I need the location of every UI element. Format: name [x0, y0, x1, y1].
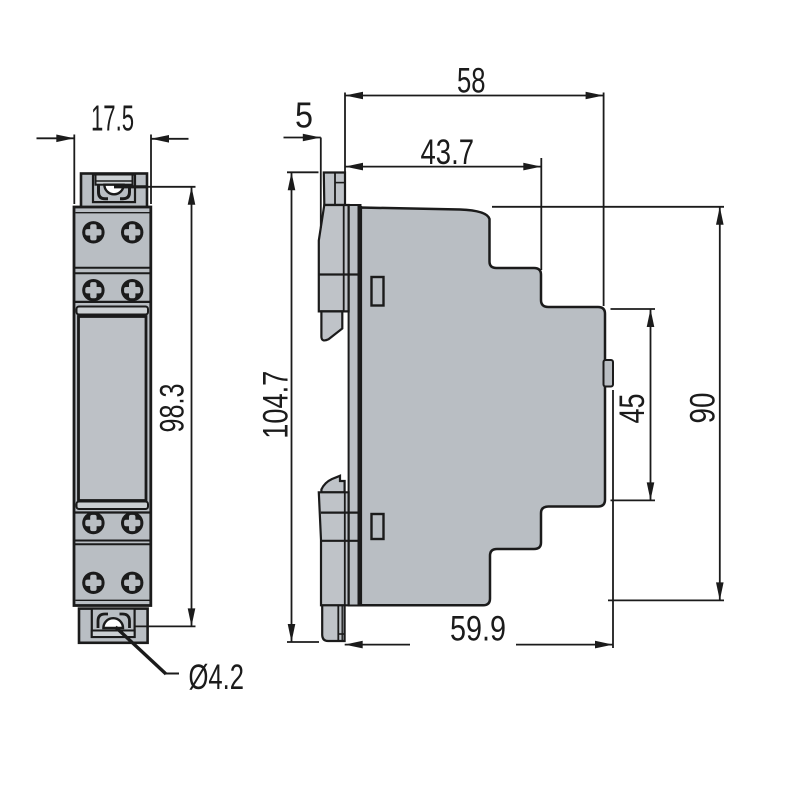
front view: terminal screw row1 left [82, 221, 104, 243]
front view: inner bottom line [76, 599, 150, 601]
svg-text:104.7: 104.7 [257, 371, 296, 439]
front view: top cable clamp block [93, 175, 135, 203]
front view: top lip strip [77, 307, 149, 315]
side view: back mounting plate [349, 205, 361, 606]
dimension 98.3: reference stubs [114, 185, 146, 188]
dimension 17.5: dim line right with arrow [151, 138, 189, 140]
front view: terminal screw row3 right [121, 512, 143, 534]
side view: top clip block [319, 205, 349, 311]
front view: top clamp left hook [99, 185, 109, 199]
front view: terminal screw row2 left [82, 279, 104, 301]
front view: top DIN tab [81, 174, 147, 208]
front view: line above top lip [74, 301, 151, 303]
dimension 58: extension lines [344, 93, 346, 205]
dimension 59.9: extension line right [612, 390, 614, 648]
side view: bottom release tab [322, 605, 344, 641]
side view: top clip tab inner line [334, 173, 336, 204]
svg-text:45: 45 [613, 394, 652, 424]
front view: top clamp right hook [120, 185, 130, 199]
front view: bottom clamp band [92, 631, 135, 638]
dimension 104.7: reference stubs [287, 171, 319, 173]
dimension dia 4.2: leader line [116, 627, 167, 674]
side view: top claw [321, 311, 342, 340]
side view: top clip block divider [319, 273, 359, 275]
side view: thick left edge of body [357, 206, 362, 606]
side view: right terminal bump [604, 360, 614, 387]
front view: terminal screw row3 left [82, 512, 104, 534]
front view: terminal screw row1 right [121, 221, 143, 243]
svg-text:59.9: 59.9 [450, 610, 506, 649]
side view: main body stepped profile [360, 208, 605, 606]
front view: terminal screw row4 left [82, 572, 104, 594]
dimension 90: vertical line with arrows [719, 207, 721, 601]
svg-text:90: 90 [684, 393, 723, 424]
dimension 98.3: vertical line with arrows [191, 187, 193, 627]
side view: top clip tab [324, 173, 345, 206]
front view: terminal screw row2 right [121, 279, 143, 301]
side view: top slot [372, 277, 384, 306]
svg-text:43.7: 43.7 [421, 133, 475, 172]
dimension 58: dim line with arrows [345, 95, 604, 97]
dimension 17.5: extension lines [73, 135, 75, 205]
front view: section divider lines upper [74, 267, 151, 269]
front view: inner top line [76, 212, 150, 214]
dimension 17.5: dim line left with arrow [37, 137, 75, 139]
svg-text:58: 58 [457, 62, 486, 101]
dimension 43.7: dim line with arrows [345, 166, 541, 168]
side view: bottom slot [372, 514, 384, 539]
front view: terminal screw row4 right [121, 572, 143, 594]
dimension 45: reference stubs [611, 308, 656, 310]
dimension 59.9: dim line with arrows [345, 644, 410, 646]
front view: top clamp band [96, 175, 133, 185]
side view: bottom clip dividers [321, 511, 359, 513]
svg-text:Ø4.2: Ø4.2 [189, 658, 245, 697]
front view: bottom DIN tab [79, 609, 148, 643]
svg-text:5: 5 [295, 95, 313, 136]
front view: top clamp hole (half circle) [104, 185, 123, 195]
front view: main body [74, 207, 151, 606]
dimension 104.7: vertical line with arrows [291, 172, 293, 642]
dimension 45: vertical line with arrows [650, 309, 652, 500]
dimension 43.7: extension line [540, 158, 542, 270]
front view: bottom clamp hole (half circle up) [103, 618, 123, 628]
front view: bottom clamp right hook [120, 614, 130, 628]
side view: bottom clip block [319, 492, 349, 605]
svg-text:17.5: 17.5 [91, 98, 134, 139]
dimension 5: extension line [320, 138, 322, 229]
front view: bottom clamp left hook [98, 614, 108, 628]
front view: bottom clamp block [92, 609, 135, 637]
svg-text:98.3: 98.3 [154, 384, 192, 433]
dimension 5: dim line with arrow [284, 137, 321, 139]
front view: bottom lip strip [77, 502, 149, 510]
front view: recessed middle panel [79, 317, 147, 501]
front view: line below bottom lip [74, 511, 151, 513]
dimension 90: reference stubs [492, 206, 724, 208]
front view: section divider lines lower [74, 540, 151, 542]
side view: bottom claw [321, 476, 344, 493]
